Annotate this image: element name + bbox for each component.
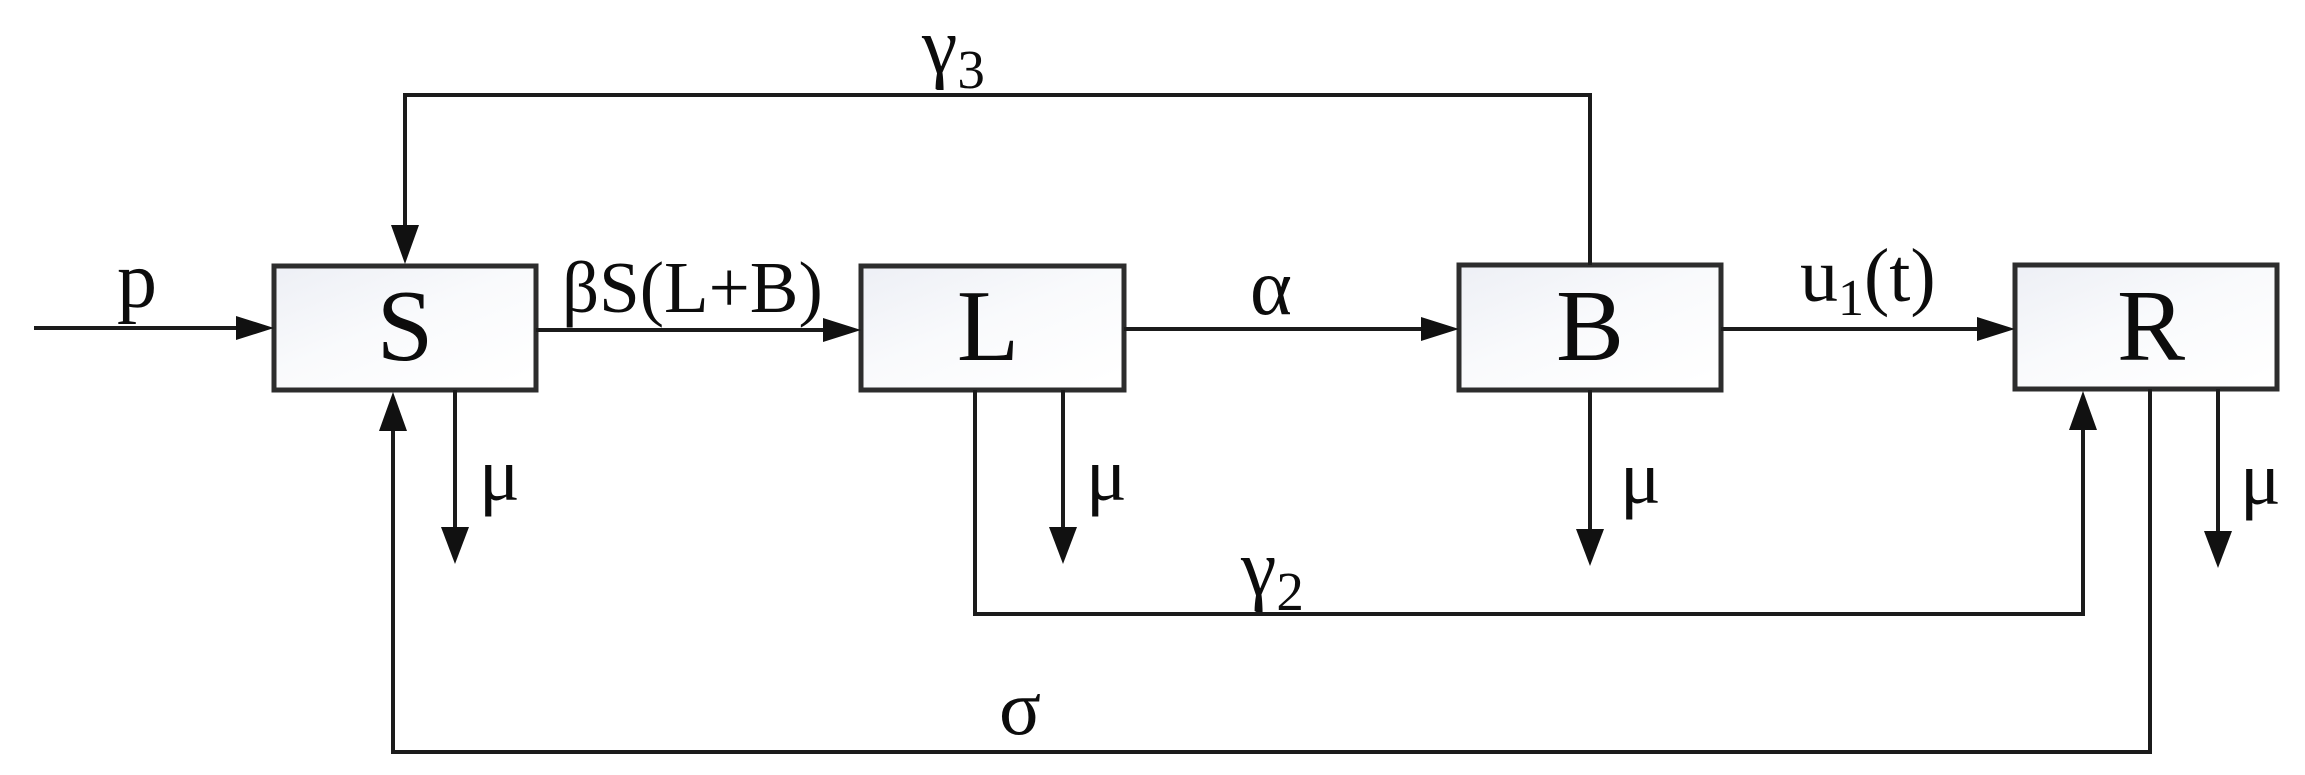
svg-text:α: α <box>1250 244 1292 332</box>
box B <box>1459 265 1721 390</box>
wire mu down from S <box>441 390 469 564</box>
svg-text:R: R <box>2117 270 2185 383</box>
wire L to B <box>1124 317 1459 341</box>
wire p arrow into S <box>34 316 274 340</box>
svg-text:μ: μ <box>479 433 520 517</box>
wire gamma2 loop L bottom to R bottom <box>975 390 2097 614</box>
wire sigma loop R bottom to S bottom <box>379 389 2150 752</box>
svg-text:L: L <box>957 270 1019 383</box>
svg-text:σ: σ <box>999 664 1041 751</box>
svg-text:μ: μ <box>1620 436 1661 520</box>
wire mu down from B <box>1576 390 1604 566</box>
wire B to R <box>1721 317 2015 341</box>
svg-text:μ: μ <box>1086 433 1127 517</box>
wire mu down from L <box>1049 390 1077 564</box>
svg-text:p: p <box>117 237 157 325</box>
svg-text:B: B <box>1556 270 1624 383</box>
box R <box>2015 265 2277 389</box>
box L <box>861 266 1124 390</box>
wire mu down from R <box>2204 389 2232 568</box>
svg-text:γ2: γ2 <box>1240 525 1304 622</box>
box S <box>274 266 536 390</box>
svg-text:u1(t): u1(t) <box>1800 234 1936 327</box>
wire S to L <box>536 318 861 342</box>
svg-text:γ3: γ3 <box>921 3 985 100</box>
wire gamma3 loop B top to S top <box>391 95 1590 265</box>
svg-text:βS(L+B): βS(L+B) <box>562 247 823 328</box>
svg-text:S: S <box>377 270 434 383</box>
svg-text:μ: μ <box>2240 437 2281 521</box>
